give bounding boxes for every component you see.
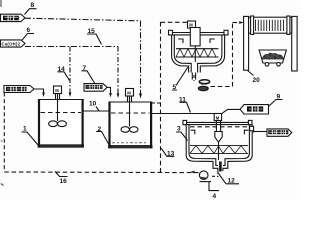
rake — [176, 49, 219, 57]
eductor pump — [198, 80, 209, 91]
centre column — [190, 28, 200, 46]
svg-text:M: M — [127, 91, 131, 96]
recycle loop dashed left — [3, 93, 5, 173]
pipe 11 tank2 to tank3 — [152, 113, 215, 115]
callout compressed air — [84, 84, 107, 92]
svg-text:4: 4 — [213, 193, 217, 200]
tank 1 — [38, 99, 84, 148]
flocculant callout — [240, 105, 269, 114]
svg-text:13: 13 — [167, 151, 175, 158]
outlet weir box — [250, 126, 254, 132]
wire flocculant to feed — [222, 109, 240, 113]
discharge pipe — [192, 73, 195, 80]
walls — [172, 35, 189, 73]
rim — [183, 122, 252, 124]
dashed pipe vessel5 to press — [193, 75, 195, 81]
agitator tank 1 — [49, 94, 67, 127]
callout Ca(OH)2 — [1, 40, 26, 47]
label 6 — [22, 27, 34, 40]
thickener unit 5 — [169, 21, 229, 80]
label 3 — [176, 126, 188, 141]
lime drop into tank 2 — [117, 47, 119, 94]
svg-text:16: 16 — [60, 178, 68, 185]
dashed connector to thickener motor — [161, 21, 188, 23]
svg-text:14: 14 — [58, 66, 66, 73]
scan artifacts — [1, 0, 4, 186]
dashed connector tank2 top to line 13 — [152, 102, 161, 104]
svg-text:15: 15 — [88, 28, 96, 35]
filter press 9 — [244, 16, 298, 71]
svg-text:1: 1 — [23, 126, 27, 133]
label 2 — [96, 126, 110, 146]
callout sludge feed — [1, 14, 26, 21]
underflow pipe 12 — [219, 162, 222, 172]
label 7 — [82, 65, 95, 83]
svg-text:12: 12 — [228, 178, 236, 185]
wire air to tank 2 — [107, 87, 111, 93]
label 10 — [89, 101, 99, 111]
agitator tank 2 — [121, 96, 138, 132]
svg-text:M: M — [55, 88, 59, 93]
wire recycled water to tank 1 — [34, 89, 44, 93]
label 1 — [22, 126, 39, 146]
label 5 — [172, 67, 188, 91]
svg-text:2: 2 — [98, 126, 102, 133]
label 20 — [248, 71, 261, 85]
label 8 — [25, 2, 37, 14]
rim — [169, 33, 229, 35]
brackets — [191, 130, 249, 134]
cake cart 20 — [259, 50, 286, 66]
label 12 — [219, 174, 240, 185]
label 9 — [269, 94, 283, 107]
wire treated water out — [254, 131, 267, 133]
pipe 10 — [84, 110, 109, 112]
svg-text:7: 7 — [83, 65, 87, 72]
recycle loop dashed bottom line 16 — [4, 171, 199, 174]
pump 4 — [199, 171, 218, 182]
line 15 lime distribution dash-dot — [25, 46, 118, 48]
rake — [190, 146, 248, 154]
label 15 — [87, 28, 102, 45]
callout treated water — [267, 129, 292, 136]
label 16 — [55, 172, 68, 186]
level dashed — [190, 126, 249, 128]
svg-text:5: 5 — [173, 84, 177, 91]
motor M tank 2 — [126, 89, 134, 102]
clarifier tank 3 — [183, 120, 252, 171]
svg-text:3: 3 — [177, 126, 181, 133]
tank 2 — [108, 102, 152, 149]
brackets — [178, 39, 215, 43]
svg-text:9: 9 — [277, 94, 281, 101]
svg-text:Ca(OH)2: Ca(OH)2 — [2, 41, 21, 46]
svg-text:10: 10 — [89, 101, 97, 108]
line 13 vertical dashed — [160, 22, 162, 172]
svg-text:6: 6 — [27, 27, 31, 34]
label 13 — [161, 148, 174, 157]
svg-text:8: 8 — [31, 2, 35, 9]
label 14 — [58, 66, 70, 81]
label 11 — [179, 97, 191, 113]
svg-text:11: 11 — [179, 97, 186, 104]
label 4 — [209, 182, 219, 200]
pipe 14 drop into tank 1 — [69, 47, 71, 93]
walls — [186, 125, 218, 171]
svg-text:M: M — [216, 115, 220, 120]
line 8 sludge dash-dot — [25, 18, 141, 21]
svg-text:20: 20 — [253, 77, 261, 84]
feed column and funnel — [216, 121, 220, 132]
motor M tank 3 — [214, 114, 221, 121]
motor M tank 1 — [54, 86, 62, 99]
callout recycled water — [4, 86, 34, 93]
